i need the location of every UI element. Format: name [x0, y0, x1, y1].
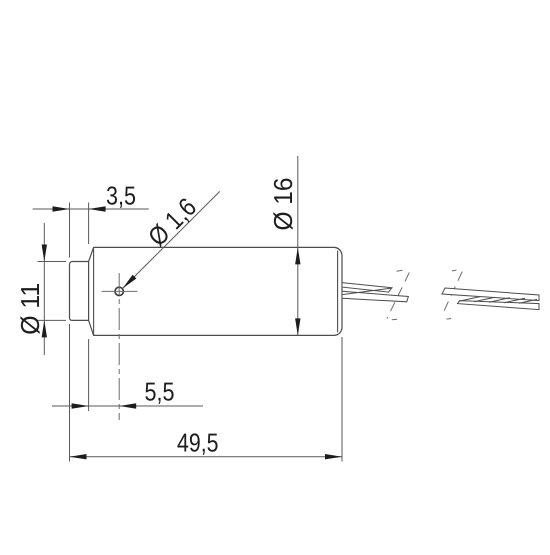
svg-text:Ø 11: Ø 11 — [15, 283, 45, 335]
dimension 49,5 dim line — [70, 456, 343, 458]
extension line cap top left — [38, 261, 67, 263]
arrow 49,5 left — [70, 454, 87, 459]
aperture circle — [115, 287, 123, 295]
svg-text:Ø 16: Ø 16 — [268, 178, 298, 231]
arrow O16 bottom — [295, 318, 300, 335]
arrow 5,5 left — [72, 403, 89, 408]
laser module body outline — [89, 247, 342, 335]
arrow O16 top — [295, 247, 300, 264]
dimension O16 dim line — [297, 156, 299, 335]
extension line body rear bottom — [341, 337, 343, 461]
arrow O11 top — [42, 245, 47, 262]
dimension 3,5 dim line — [33, 208, 149, 210]
dimension O11 dim line — [43, 223, 45, 355]
extension line body front top — [88, 203, 90, 245]
wire upper right segment — [442, 288, 539, 301]
arrow 5,5 right — [119, 403, 136, 408]
body rear rounded edge line — [337, 251, 339, 333]
arrow 3,5 right — [89, 206, 106, 211]
svg-text:5,5: 5,5 — [145, 377, 175, 407]
extension line cap front bottom long — [69, 324, 71, 461]
wire twist line left — [342, 288, 391, 294]
wire upper left segment — [342, 283, 392, 293]
dimension 5,5 dim line — [52, 405, 203, 407]
arrow 49,5 right — [325, 454, 342, 459]
extension line cap bottom left — [38, 319, 67, 321]
break symbol left — [387, 270, 409, 319]
leader O1,6 arrow — [123, 275, 137, 289]
arrow 3,5 left — [53, 206, 70, 211]
aperture crosshair horizontal — [102, 290, 138, 292]
wire twist lines right — [459, 297, 537, 304]
body front chamfer edge line — [93, 248, 95, 336]
front cap — [70, 262, 89, 321]
break symbol right — [442, 270, 462, 319]
arrow O11 bottom — [42, 320, 47, 337]
wire lower left segment — [342, 291, 408, 302]
leader O1,6 line — [123, 191, 220, 288]
aperture centerline vertical — [118, 273, 120, 420]
extension line cap front top — [69, 203, 71, 258]
wire lower right segment — [458, 301, 540, 310]
svg-text:3,5: 3,5 — [106, 181, 136, 211]
svg-text:49,5: 49,5 — [177, 428, 219, 458]
extension line body front bottom — [88, 339, 90, 411]
